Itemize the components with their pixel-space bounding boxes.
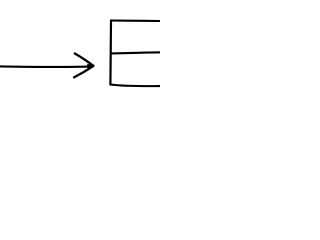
node box top edge [110,19,161,22]
arrowhead [74,54,94,78]
node box bottom edge [111,85,161,87]
node box left edge [109,21,112,85]
wire arrow shaft [0,65,91,68]
arrowhead tip wedge [87,64,93,69]
node box middle divider [110,52,161,53]
